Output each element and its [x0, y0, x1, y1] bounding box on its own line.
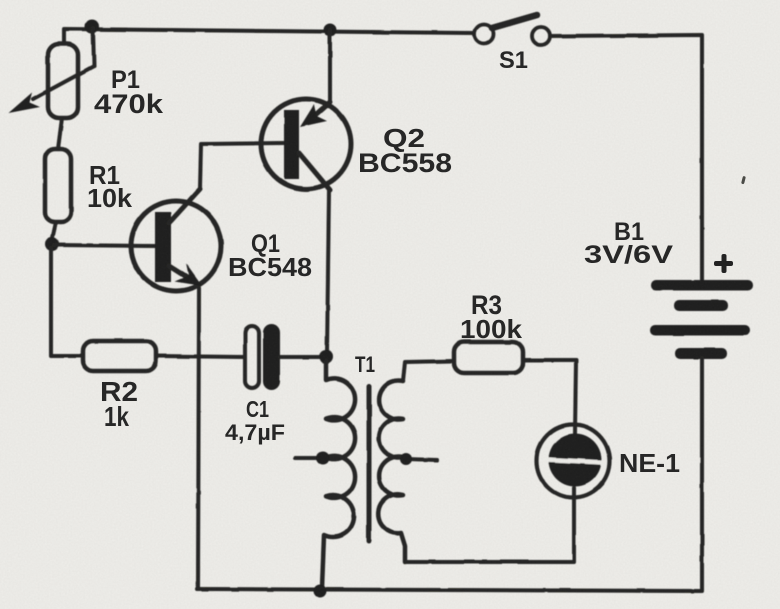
transistor Q2	[261, 99, 351, 189]
scan mark near battery	[741, 176, 746, 184]
wire Q1 emitter down to bottom rail	[198, 288, 199, 589]
node C1/T1 junction dot	[319, 350, 333, 364]
wire T1 secondary top to R3	[403, 361, 454, 381]
resistor R3	[454, 342, 523, 373]
wire S1 to battery top	[550, 35, 702, 280]
label plus sign	[714, 254, 733, 273]
wire left rail down to R2	[51, 248, 81, 356]
wire Q2 emitter up to top rail	[328, 30, 332, 101]
wire battery minus down and bottom rail	[197, 358, 702, 591]
wire C1 to node	[280, 355, 322, 359]
node Q2 top junction dot	[324, 24, 337, 37]
wire node to Q1 base	[54, 245, 155, 246]
lamp NE-1 neon	[537, 425, 610, 498]
transformer T1 primary winding	[322, 361, 355, 588]
capacitor C1	[245, 326, 259, 388]
wire top rail	[64, 29, 474, 44]
resistor R2	[83, 341, 156, 371]
wire Q1 collector to Q2 base	[200, 143, 284, 189]
potentiometer P1	[48, 44, 78, 118]
battery B1	[651, 280, 753, 291]
wire NE-1 bottom loop to T1 secondary	[406, 488, 574, 562]
wire R2 to C1	[156, 356, 245, 357]
node base junction dot	[45, 237, 59, 251]
wire R1 to node	[52, 222, 56, 240]
wire R3 to NE-1 top	[523, 360, 576, 434]
node T1 primary bottom dot	[314, 585, 327, 598]
transistor Q1	[131, 201, 221, 291]
node top-left junction dot	[85, 20, 99, 34]
switch S1	[475, 25, 494, 44]
transformer T1 core	[367, 386, 372, 541]
resistor R1	[45, 149, 71, 222]
node T1 primary center tap	[295, 456, 320, 460]
node T1 secondary center tap	[406, 459, 437, 460]
wire P1 arrow wiper	[33, 66, 94, 99]
wire P1 wiper from top node	[93, 28, 94, 66]
wire Q2 collector down to C1 node	[327, 190, 329, 355]
transformer T1 secondary winding	[378, 381, 405, 563]
wire P1 to R1	[58, 118, 62, 149]
paper speckle (decorative)	[0, 0, 1, 1]
